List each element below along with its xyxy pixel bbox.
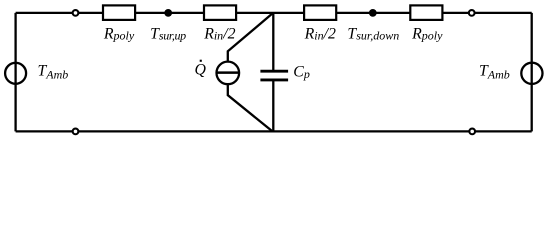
svg-text:Rpoly: Rpoly	[411, 25, 443, 42]
capacitor C_p bottom plate	[260, 78, 288, 81]
node: open terminal top-left	[73, 10, 79, 16]
wire: left vertical branch	[14, 13, 16, 131]
node: open terminal bottom-left	[73, 129, 79, 135]
svg-text:Tsur,up: Tsur,up	[150, 25, 186, 42]
svg-text:TAmb: TAmb	[479, 63, 510, 82]
resistor R_in/2 left	[204, 5, 236, 20]
heat flow source Q diameter bar	[217, 71, 240, 74]
svg-text:Rpoly: Rpoly	[103, 25, 135, 42]
temperature source T_Amb left	[5, 63, 26, 84]
heat flow source Q	[217, 62, 240, 85]
wire: diagonal from heat source to bottom node	[228, 84, 273, 131]
svg-text:Rin/2: Rin/2	[304, 25, 336, 42]
resistor R_in/2 right	[304, 5, 336, 20]
resistor R_poly right	[410, 5, 442, 20]
svg-text:Q: Q	[195, 62, 207, 79]
wire: diagonal from top node to heat source	[228, 13, 273, 62]
svg-text:Tsur,down: Tsur,down	[347, 25, 399, 42]
node: open terminal bottom-right	[469, 129, 475, 135]
label Q-dot overdot	[200, 60, 202, 62]
wire: right vertical branch	[531, 13, 533, 131]
svg-text:TAmb: TAmb	[38, 63, 69, 82]
node T_sur,up (junction dot)	[164, 9, 172, 17]
svg-text:Cp: Cp	[293, 63, 310, 81]
capacitor C_p top plate	[260, 70, 288, 73]
node T_sur,down (junction dot)	[369, 9, 377, 17]
temperature source T_Amb right	[521, 63, 542, 84]
resistor R_poly left	[103, 5, 135, 20]
wire: capacitor branch lower segment	[272, 81, 274, 131]
wire: capacitor branch upper segment	[272, 13, 274, 70]
wire: bottom rail	[16, 130, 532, 132]
svg-text:Rin/2: Rin/2	[203, 25, 235, 42]
node: open terminal top-right	[469, 10, 475, 16]
wire: top rail	[16, 12, 532, 14]
